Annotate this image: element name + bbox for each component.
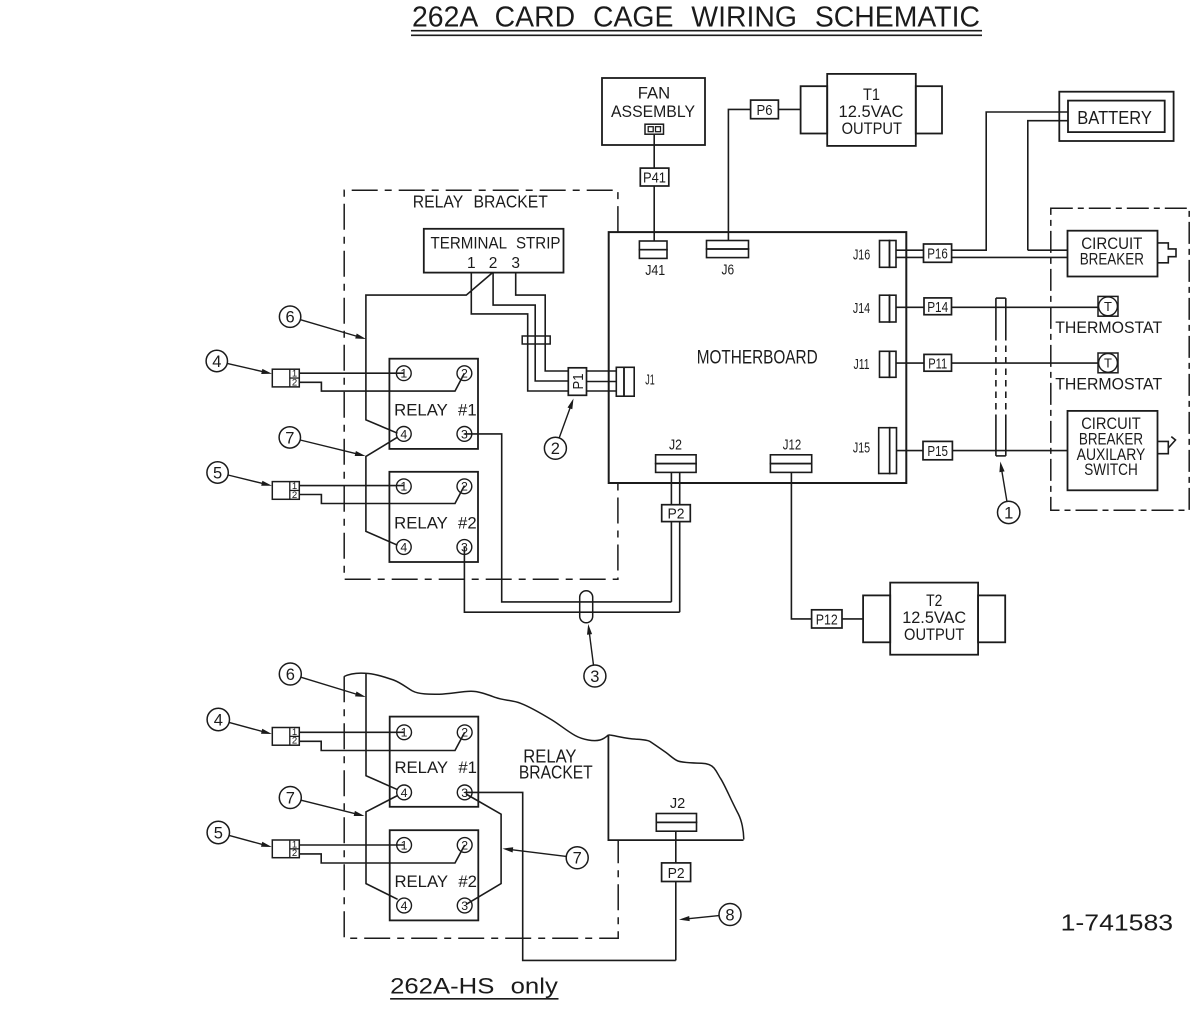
svg-text:J14: J14 <box>853 301 870 317</box>
svg-text:2: 2 <box>551 440 560 458</box>
svg-text:RELAY #1: RELAY #1 <box>394 400 477 419</box>
svg-text:4: 4 <box>212 353 221 371</box>
svg-text:J15: J15 <box>853 441 870 457</box>
svg-text:J1: J1 <box>645 373 655 389</box>
svg-text:3: 3 <box>461 786 468 800</box>
svg-text:J2: J2 <box>669 437 682 453</box>
svg-text:RELAY #2: RELAY #2 <box>394 513 477 532</box>
svg-text:4: 4 <box>400 427 407 441</box>
svg-text:3: 3 <box>461 540 468 554</box>
svg-text:4: 4 <box>401 786 408 800</box>
svg-text:6: 6 <box>286 666 295 684</box>
svg-text:7: 7 <box>573 850 582 868</box>
svg-text:THERMOSTAT: THERMOSTAT <box>1055 375 1162 394</box>
svg-text:SWITCH: SWITCH <box>1084 460 1138 479</box>
svg-text:3: 3 <box>461 899 468 913</box>
svg-text:5: 5 <box>213 464 222 482</box>
svg-text:1: 1 <box>400 367 407 381</box>
svg-text:1: 1 <box>401 838 408 852</box>
svg-text:P6: P6 <box>757 102 773 119</box>
svg-text:J12: J12 <box>783 438 801 454</box>
svg-text:ASSEMBLY: ASSEMBLY <box>611 102 695 121</box>
svg-text:P15: P15 <box>927 443 948 460</box>
svg-text:3: 3 <box>590 668 599 686</box>
svg-text:3: 3 <box>461 427 468 441</box>
svg-text:7: 7 <box>285 429 294 447</box>
svg-text:P14: P14 <box>927 299 948 316</box>
svg-text:2: 2 <box>292 736 297 747</box>
svg-text:P11: P11 <box>928 355 947 372</box>
svg-text:T: T <box>1104 356 1112 371</box>
svg-text:8: 8 <box>725 906 734 924</box>
svg-text:2: 2 <box>292 848 297 859</box>
svg-text:P41: P41 <box>643 170 666 187</box>
svg-text:2: 2 <box>461 367 468 381</box>
svg-text:P2: P2 <box>668 865 685 882</box>
svg-text:OUTPUT: OUTPUT <box>842 119 902 138</box>
svg-text:TERMINAL STRIP: TERMINAL STRIP <box>431 234 561 253</box>
svg-text:J41: J41 <box>645 263 665 279</box>
svg-text:2: 2 <box>461 480 468 494</box>
svg-text:1-741583: 1-741583 <box>1061 910 1174 936</box>
svg-text:4: 4 <box>214 711 223 729</box>
svg-text:P16: P16 <box>927 246 948 263</box>
svg-text:262A CARD CAGE WIRING SCHEMATI: 262A CARD CAGE WIRING SCHEMATIC <box>412 1 980 33</box>
svg-text:P2: P2 <box>668 506 685 523</box>
svg-text:1: 1 <box>401 726 408 740</box>
svg-text:3: 3 <box>511 255 520 272</box>
svg-text:1: 1 <box>467 255 476 272</box>
svg-text:FAN: FAN <box>638 84 670 103</box>
svg-text:5: 5 <box>214 824 223 842</box>
svg-text:OUTPUT: OUTPUT <box>904 625 964 644</box>
svg-text:P12: P12 <box>816 612 838 629</box>
svg-text:7: 7 <box>286 789 295 807</box>
svg-text:6: 6 <box>286 309 295 327</box>
svg-text:T: T <box>1104 299 1112 314</box>
svg-text:J11: J11 <box>854 357 870 373</box>
svg-text:RELAY BRACKET: RELAY BRACKET <box>413 192 548 212</box>
svg-text:RELAY #2: RELAY #2 <box>394 872 477 891</box>
svg-text:J6: J6 <box>722 263 735 279</box>
svg-text:2: 2 <box>292 490 297 501</box>
svg-text:262A-HS only: 262A-HS only <box>390 973 559 998</box>
svg-text:BREAKER: BREAKER <box>1080 249 1144 268</box>
svg-text:2: 2 <box>292 377 297 388</box>
svg-text:J2: J2 <box>670 796 685 812</box>
svg-text:J16: J16 <box>853 247 870 263</box>
svg-text:1: 1 <box>400 480 407 494</box>
svg-text:4: 4 <box>400 540 407 554</box>
svg-text:MOTHERBOARD: MOTHERBOARD <box>697 348 818 369</box>
svg-text:2: 2 <box>461 838 468 852</box>
svg-text:2: 2 <box>461 726 468 740</box>
svg-text:1: 1 <box>1004 504 1013 522</box>
svg-text:THERMOSTAT: THERMOSTAT <box>1055 318 1162 337</box>
svg-text:BATTERY: BATTERY <box>1077 107 1152 128</box>
svg-text:BRACKET: BRACKET <box>519 763 593 783</box>
svg-text:4: 4 <box>401 899 408 913</box>
svg-text:2: 2 <box>489 255 498 272</box>
svg-text:RELAY #1: RELAY #1 <box>394 758 477 777</box>
svg-text:P1: P1 <box>570 374 587 390</box>
